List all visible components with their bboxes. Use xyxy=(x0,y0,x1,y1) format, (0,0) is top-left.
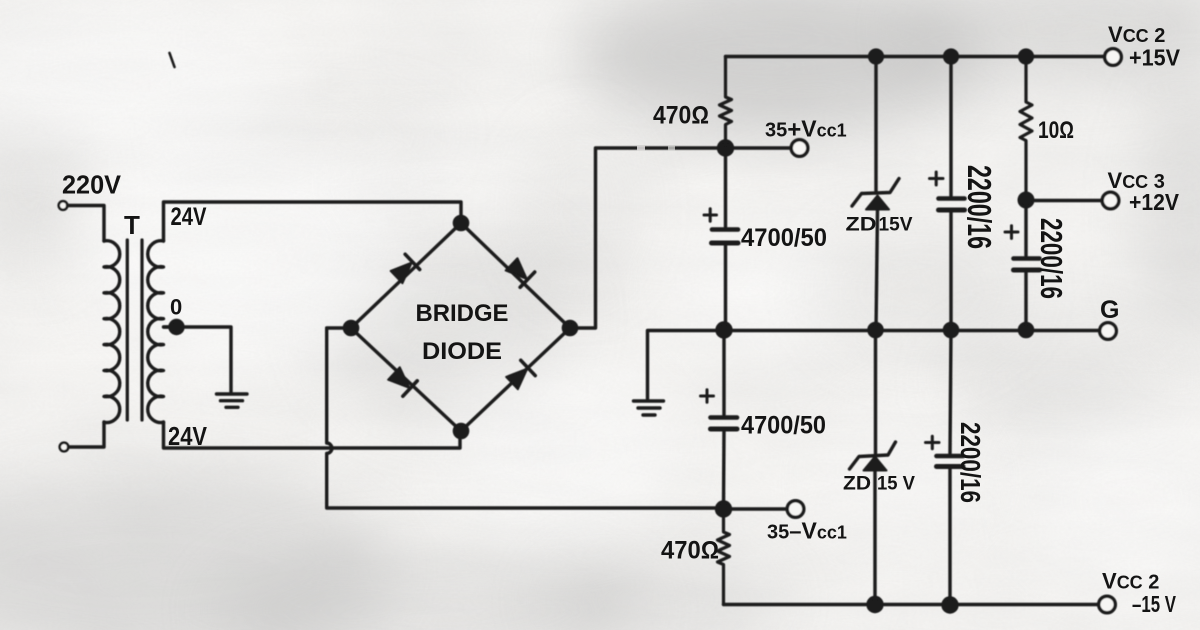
svg-text:4700/50: 4700/50 xyxy=(741,224,827,252)
node mid rail x875 xyxy=(869,323,882,336)
svg-text:+15V: +15V xyxy=(1129,45,1180,71)
ground (mid rail) xyxy=(634,401,664,415)
transformer T primary terminal top xyxy=(59,201,68,210)
svg-text:G: G xyxy=(1100,296,1119,324)
terminal 35+Vcc1 xyxy=(732,146,791,149)
svg-text:2200/16: 2200/16 xyxy=(955,422,986,503)
terminal Vcc2 -15V xyxy=(1099,596,1116,613)
svg-text:10Ω: 10Ω xyxy=(1038,117,1074,144)
transformer T primary winding xyxy=(104,241,120,423)
svg-text:BRIDGE: BRIDGE xyxy=(416,300,509,327)
top rail xyxy=(726,55,1105,58)
svg-text:ZD: ZD xyxy=(846,214,877,236)
diode D1 left-to-top xyxy=(389,254,419,284)
wire secondary bottom 24V tap xyxy=(164,422,461,448)
svg-text:24V: 24V xyxy=(171,203,207,231)
zener ZD2 15V bottom xyxy=(874,330,877,455)
svg-text:15V: 15V xyxy=(879,214,913,236)
wire center tap stub xyxy=(164,325,171,328)
capacitor C1 4700/50 top xyxy=(724,148,727,227)
svg-text:220V: 220V xyxy=(62,170,122,200)
node top rail / 10ohm column xyxy=(1020,50,1033,63)
wire primary top lead xyxy=(68,206,105,242)
bridge rectifier diamond xyxy=(351,223,570,431)
capacitor C2 2200/16 top xyxy=(949,57,952,197)
transformer core xyxy=(126,240,129,420)
terminal G xyxy=(1100,323,1117,340)
node bottom rail x950 xyxy=(943,598,957,612)
node bridge bottom xyxy=(454,424,467,437)
diode D4 bottom-to-right xyxy=(505,360,535,390)
node 35+Vcc1 xyxy=(719,141,733,155)
wire primary bottom lead xyxy=(69,422,105,447)
zener ZD1 15V top xyxy=(874,57,877,194)
stray tick mark xyxy=(170,53,175,67)
transformer T secondary winding xyxy=(148,241,164,423)
diode D3 left-to-bottom xyxy=(387,366,417,396)
node mid rail x1026 xyxy=(1019,323,1032,336)
capacitor C4 4700/50 bottom xyxy=(722,330,725,416)
svg-text:T: T xyxy=(124,210,140,240)
svg-text:+12V: +12V xyxy=(1129,189,1179,215)
plus sign C2 xyxy=(930,172,944,185)
node bottom rail x875 xyxy=(868,598,882,612)
terminal 35-Vcc1 xyxy=(730,507,788,510)
svg-text:4700/50: 4700/50 xyxy=(741,412,826,440)
node bridge left xyxy=(344,321,357,334)
svg-text:2200/16: 2200/16 xyxy=(1034,218,1069,299)
node center tap 0 xyxy=(170,321,183,334)
wire bridge right to +35 node xyxy=(570,148,717,328)
svg-text:–15 V: –15 V xyxy=(1132,591,1176,617)
svg-text:470Ω: 470Ω xyxy=(653,102,709,130)
node mid rail x951 xyxy=(944,323,957,336)
svg-text:15 V: 15 V xyxy=(877,473,915,495)
terminal Vcc2 +15V xyxy=(1105,49,1122,66)
transformer T primary terminal bottom xyxy=(60,443,69,452)
resistor 470ohm top xyxy=(720,57,732,149)
node bridge right xyxy=(563,321,576,334)
diode D2 top-to-right xyxy=(504,257,534,287)
svg-text:470Ω: 470Ω xyxy=(661,537,719,565)
plus sign C4 xyxy=(701,390,714,403)
capacitor C5 2200/16 bottom xyxy=(950,330,951,454)
node top rail / cap column xyxy=(945,50,958,63)
svg-text:ZD: ZD xyxy=(843,473,871,495)
svg-text:2200/16: 2200/16 xyxy=(961,165,998,249)
mid ground rail xyxy=(648,331,1100,400)
svg-text:VCC 2: VCC 2 xyxy=(1102,569,1159,594)
plus sign C1 xyxy=(704,209,717,221)
node mid rail x724 xyxy=(717,323,731,337)
svg-text:35+Vcc1: 35+Vcc1 xyxy=(765,116,847,144)
plus sign C3 xyxy=(1005,226,1018,239)
bottom rail xyxy=(724,603,1099,606)
svg-text:24V: 24V xyxy=(168,421,208,451)
node 35-Vcc1 xyxy=(717,502,731,516)
resistor 10ohm xyxy=(1020,57,1032,201)
node top rail / zener column xyxy=(870,50,883,63)
node bridge top xyxy=(454,216,467,229)
resistor 470ohm bottom xyxy=(718,509,730,605)
node Vcc3 junction xyxy=(1019,193,1033,207)
terminal Vcc3 +12V xyxy=(1033,199,1102,202)
capacitor C3 2200/16 right xyxy=(1024,200,1027,257)
wire bridge left down to negative rail xyxy=(327,328,723,508)
plus sign C5 xyxy=(926,436,940,449)
svg-text:DIODE: DIODE xyxy=(422,338,502,365)
ground (transformer center tap) xyxy=(217,394,248,407)
svg-text:0: 0 xyxy=(170,295,182,320)
wire secondary top 24V tap to bridge top xyxy=(164,202,462,241)
wire center tap to ground xyxy=(164,327,232,393)
svg-text:VCC 2: VCC 2 xyxy=(1108,22,1165,47)
